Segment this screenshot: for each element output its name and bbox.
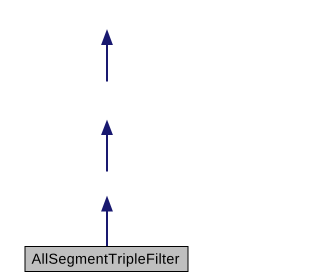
inheritance edge 3 (bottom) shaft bbox=[106, 208, 108, 246]
inheritance edge 1 (top) shaft bbox=[106, 42, 108, 82]
node label "AllSegmentTripleFilter" (text as outline paths) bbox=[32, 253, 180, 267]
inheritance edge 1 (top) arrowhead bbox=[102, 31, 112, 45]
inheritance edge 3 (bottom) arrowhead bbox=[102, 197, 112, 211]
inheritance edge 2 (middle) shaft bbox=[106, 132, 108, 172]
inheritance edge 2 (middle) arrowhead bbox=[102, 121, 112, 135]
node box AllSegmentTripleFilter bbox=[25, 247, 188, 272]
